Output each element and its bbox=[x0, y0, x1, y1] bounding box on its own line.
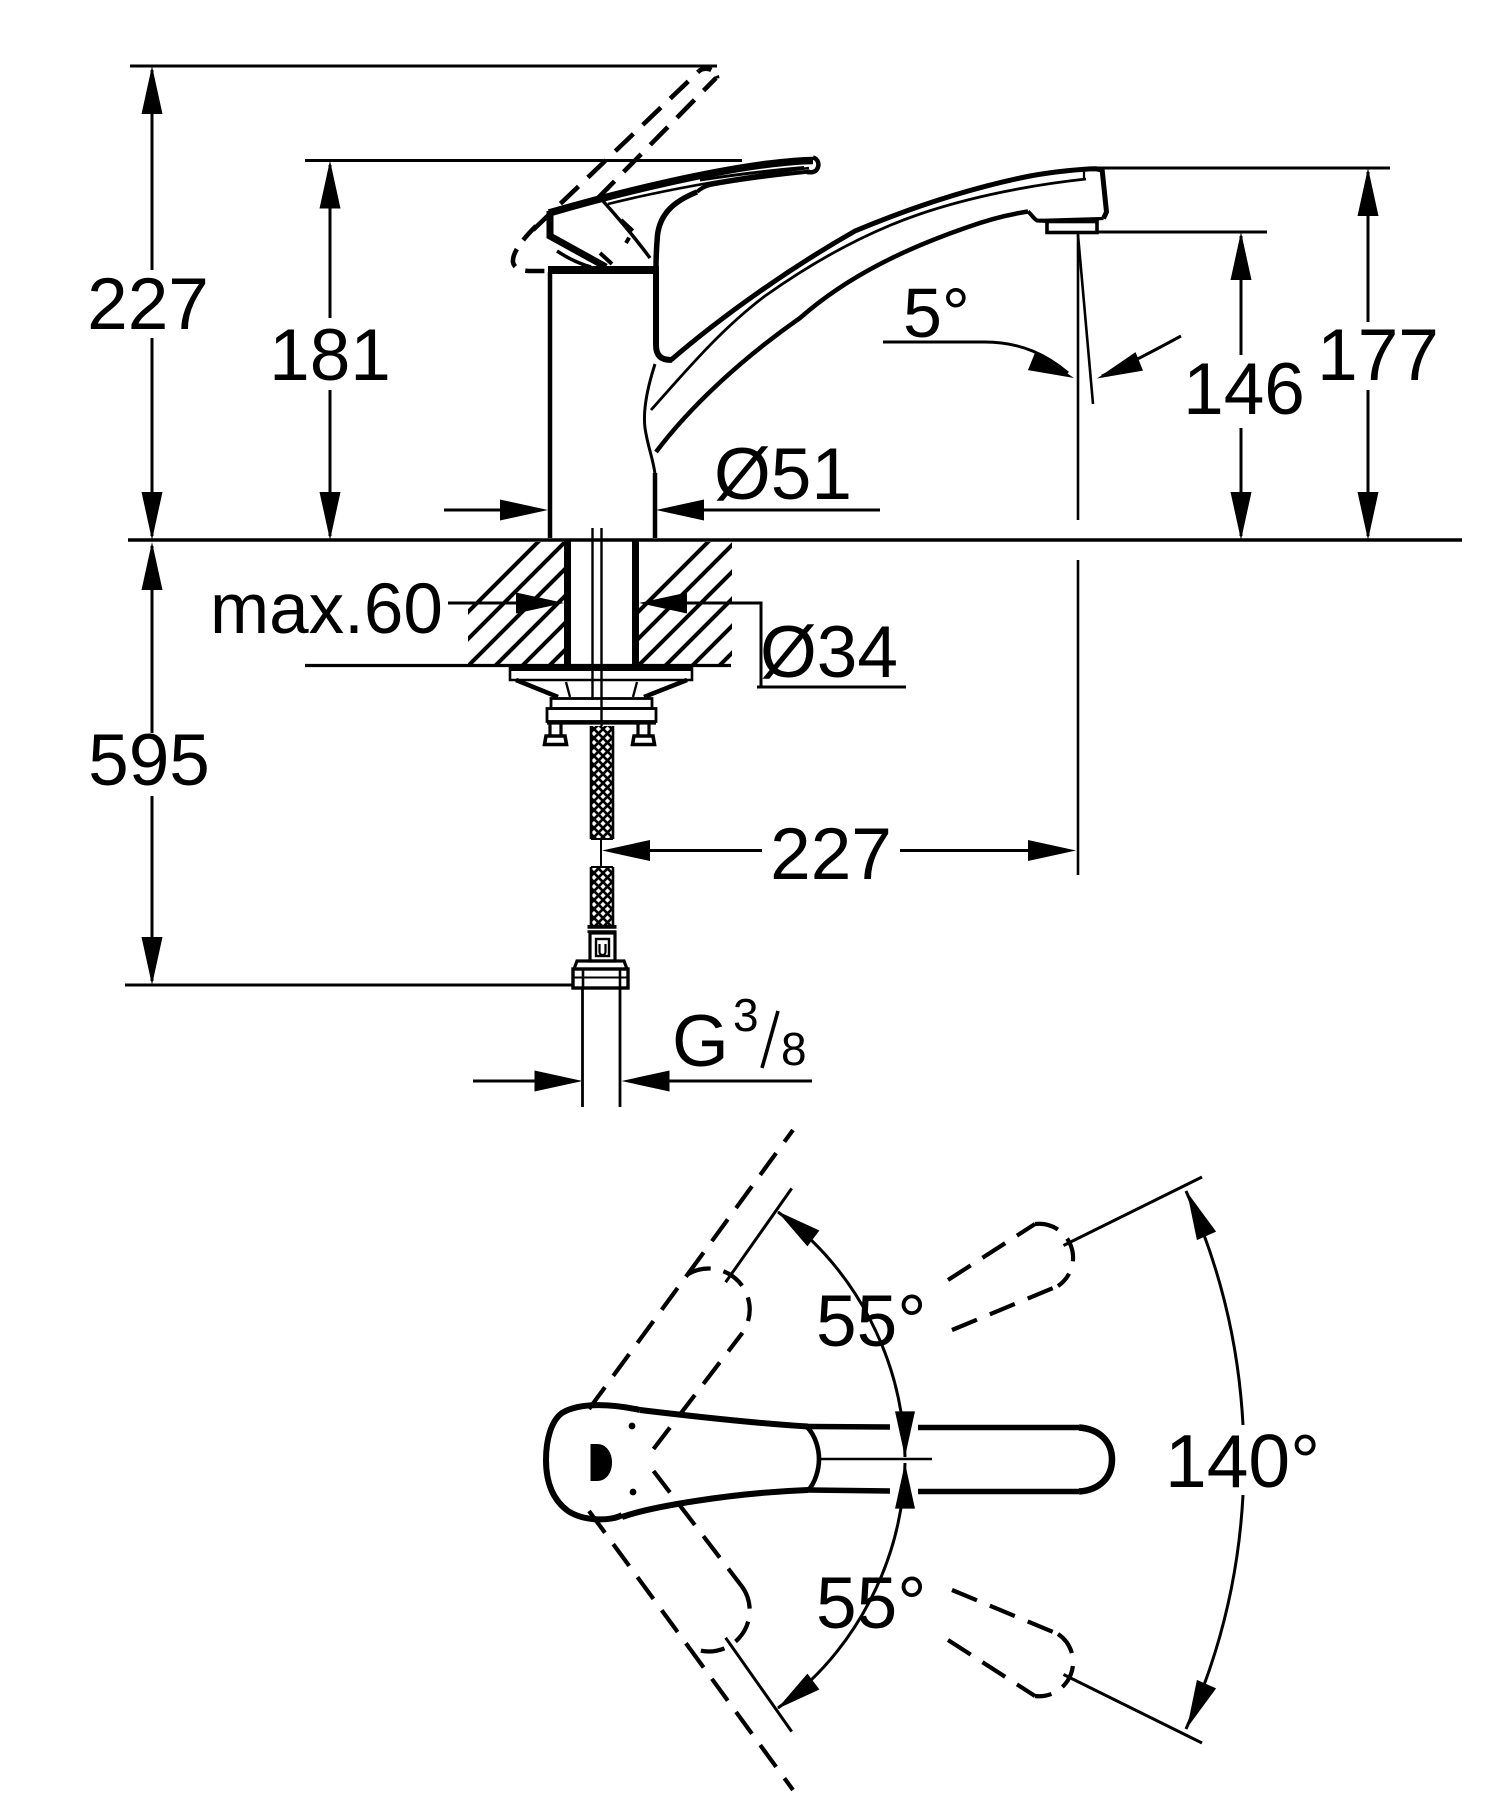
dimension 181 vertical bbox=[320, 161, 341, 541]
braided hose lower bbox=[591, 867, 613, 925]
dashed raised handle line B bbox=[597, 78, 716, 199]
mounting nut bottom edge bbox=[547, 720, 656, 724]
ball dot top bbox=[629, 1423, 636, 1430]
shank wall left bbox=[564, 540, 571, 665]
svg-text:140°: 140° bbox=[1165, 1419, 1320, 1503]
svg-text:Ø34: Ø34 bbox=[760, 612, 898, 693]
55 deg arc lower bbox=[778, 1463, 905, 1708]
5 degree tilted line bbox=[1078, 235, 1093, 404]
dashed lever upper-left cap bbox=[688, 1269, 750, 1334]
aerator bbox=[1047, 222, 1097, 233]
spout bottom edge bbox=[656, 212, 1028, 453]
supply tube bbox=[583, 988, 621, 1107]
5 degree arc left bbox=[883, 342, 1068, 373]
shank wall right bbox=[632, 540, 639, 665]
svg-text:55°: 55° bbox=[816, 1563, 926, 1644]
cap inner curve B bbox=[603, 201, 650, 258]
mounting nut band 1 bbox=[551, 699, 652, 709]
connector window bbox=[596, 939, 609, 956]
flange cone inner lines bbox=[566, 682, 637, 697]
svg-text:595: 595 bbox=[88, 720, 210, 801]
140 deg arc lower bbox=[1186, 1495, 1243, 1729]
connector window mark bbox=[600, 944, 606, 955]
dashed lever lower-left edge 2 bbox=[654, 1471, 742, 1586]
55 deg line upper-left bbox=[726, 1188, 792, 1282]
dashed ball inner dash bbox=[600, 253, 612, 264]
svg-text:55°: 55° bbox=[816, 1281, 926, 1362]
svg-text:227: 227 bbox=[770, 814, 892, 895]
counter hatching left bbox=[400, 520, 722, 680]
handle lever top edge bbox=[549, 161, 813, 214]
handle lever tip bbox=[807, 158, 818, 173]
ball dot bottom bbox=[630, 1489, 637, 1496]
spout step bbox=[1028, 212, 1047, 222]
55 deg line lower-left bbox=[726, 1638, 792, 1732]
grip center line bbox=[818, 1458, 932, 1461]
grip top edge bbox=[808, 1427, 1079, 1428]
svg-text:5°: 5° bbox=[903, 274, 970, 352]
svg-text:8: 8 bbox=[781, 1023, 807, 1075]
hose connector body bbox=[590, 933, 615, 961]
dashed lever upper-right edge 2 bbox=[952, 1286, 1058, 1330]
dashed lever lower-left cap bbox=[688, 1586, 750, 1651]
spout head right edge bbox=[1102, 169, 1107, 219]
spout top inner line bbox=[651, 179, 1086, 410]
dashed lever lower-left extension bbox=[688, 1646, 793, 1790]
dimension 146 vertical bbox=[1231, 232, 1252, 540]
extension line upper-right bbox=[1064, 1177, 1203, 1246]
spout head joint line bbox=[1083, 169, 1085, 180]
dashed raised handle tip bbox=[699, 69, 717, 79]
dimension 227 vertical bbox=[142, 66, 163, 540]
blade inner line bbox=[700, 168, 804, 181]
dashed lever upper-right edge 1 bbox=[948, 1224, 1035, 1280]
counter top line bbox=[128, 538, 1462, 541]
svg-text:Ø51: Ø51 bbox=[714, 434, 852, 515]
ball D mark bbox=[591, 1444, 613, 1481]
extension line 177 ref bbox=[1094, 167, 1390, 170]
braided hose upper bbox=[591, 726, 613, 839]
svg-text:227: 227 bbox=[87, 264, 209, 345]
stud left bbox=[545, 723, 567, 745]
dashed lever lower-right edge 2 bbox=[952, 1590, 1058, 1634]
lever top edge left bbox=[640, 1410, 808, 1427]
water stream line below counter bbox=[1077, 560, 1080, 875]
svg-text:181: 181 bbox=[269, 315, 391, 396]
5 degree arc right bbox=[1102, 336, 1181, 376]
dimension 595 vertical bbox=[142, 542, 163, 985]
column right S edge bbox=[644, 364, 655, 474]
grip bottom edge bbox=[808, 1490, 1079, 1492]
flange cone bbox=[516, 680, 687, 697]
handle ball bbox=[546, 1405, 640, 1519]
hose line in shank bbox=[591, 528, 593, 700]
hose connector collar bbox=[588, 925, 617, 933]
dimension G3/8 bbox=[473, 1071, 812, 1092]
handle lever mid line bbox=[608, 168, 809, 204]
dashed raised handle line A bbox=[533, 71, 699, 230]
cap base joint bbox=[548, 266, 659, 274]
dimension O51 bbox=[444, 500, 880, 521]
svg-text:146: 146 bbox=[1183, 349, 1305, 430]
svg-text:177: 177 bbox=[1317, 315, 1439, 396]
G nut bbox=[573, 969, 628, 988]
svg-text:max.60: max.60 bbox=[210, 570, 443, 649]
column right edge above corner bbox=[656, 268, 672, 360]
spout head bottom edge bbox=[1037, 219, 1104, 221]
dashed lever upper-right cap bbox=[1035, 1224, 1073, 1286]
spout top edge bbox=[671, 169, 1102, 360]
stud right bbox=[633, 723, 655, 745]
extension line bottom (595 ref) bbox=[125, 984, 573, 987]
dashed lever lower-right cap bbox=[1035, 1634, 1073, 1696]
extension line top (227 ref) bbox=[130, 65, 717, 68]
dashed lever lower-right edge 1 bbox=[948, 1640, 1035, 1696]
dimension leader O34 bbox=[639, 593, 687, 614]
counter bottom line bbox=[305, 664, 731, 667]
dashed lever upper-left edge 2 bbox=[654, 1334, 742, 1449]
dashed lever lower-left edge 1 bbox=[589, 1511, 688, 1646]
G nut flare bbox=[574, 961, 627, 969]
mounting nut band 2 bbox=[547, 709, 656, 722]
label G 3/8 bbox=[672, 989, 807, 1082]
dimension 177 vertical bbox=[1358, 168, 1379, 540]
dashed chevron dash bbox=[621, 220, 633, 243]
handle neck bbox=[656, 192, 697, 268]
dimension 227 horizontal bbox=[602, 840, 1076, 861]
mounting flange bbox=[510, 667, 692, 680]
lever bottom edge left bbox=[622, 1490, 808, 1517]
counter hatching right bbox=[570, 520, 865, 680]
svg-text:G: G bbox=[672, 1001, 729, 1082]
grip right cap bbox=[1079, 1428, 1112, 1492]
dashed lever upper-left edge 1 bbox=[589, 1274, 688, 1409]
extension line 181 ref bbox=[305, 159, 742, 162]
extension line lower-right bbox=[1064, 1675, 1203, 1744]
dashed lever upper-left extension bbox=[688, 1130, 793, 1274]
handle cap bbox=[550, 211, 606, 267]
hose gap center line bbox=[600, 839, 602, 867]
55 deg arc upper bbox=[778, 1212, 905, 1457]
water stream vertical line bbox=[1077, 234, 1080, 520]
lever division curve bbox=[807, 1427, 819, 1491]
dashed raised handle ball bbox=[513, 226, 545, 271]
svg-text:3: 3 bbox=[733, 989, 759, 1041]
cap inner curve A bbox=[557, 251, 591, 267]
extension line 146 ref bbox=[1096, 231, 1267, 234]
center line in shank bbox=[600, 528, 602, 726]
handle lever bottom edge bbox=[697, 172, 810, 193]
faucet column bbox=[550, 272, 655, 538]
140 deg arc upper bbox=[1186, 1191, 1243, 1425]
